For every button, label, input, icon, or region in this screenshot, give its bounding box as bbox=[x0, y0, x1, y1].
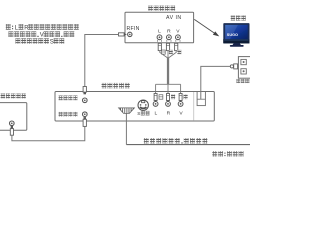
svg-text:SUGO: SUGO bbox=[227, 33, 238, 37]
plug R (STB) bbox=[167, 94, 170, 101]
label technician only bbox=[144, 138, 208, 144]
plug power (2-pin) bbox=[230, 64, 237, 69]
plug RF output bbox=[83, 117, 86, 126]
wire technician connector lead bbox=[125, 114, 127, 145]
label R (STB) bbox=[167, 110, 171, 116]
label power outlet bbox=[236, 79, 253, 83]
label V (TV) bbox=[176, 28, 180, 34]
label yellow (top) bbox=[177, 50, 181, 54]
wire RF cable to loop output bbox=[85, 35, 119, 87]
label TV set bbox=[231, 16, 246, 21]
svg-text:L: L bbox=[155, 110, 158, 116]
label loop output bbox=[59, 96, 78, 101]
label AV IN bbox=[166, 15, 182, 21]
plug V (STB) bbox=[179, 94, 182, 101]
label RFIN bbox=[127, 26, 140, 32]
jack L (TV) bbox=[157, 35, 162, 42]
wire user terminal to RF output bbox=[12, 126, 85, 140]
jack L (STB) bbox=[153, 100, 158, 106]
plug L (from TV) bbox=[158, 43, 161, 50]
label V (STB) bbox=[179, 110, 183, 116]
arrow to TV set bbox=[194, 19, 219, 36]
plug loop output bbox=[83, 87, 86, 95]
TV set icon bbox=[223, 23, 249, 47]
svg-text:V: V bbox=[40, 33, 44, 39]
svg-text:S: S bbox=[50, 40, 54, 46]
label TV back panel bbox=[148, 6, 175, 11]
label white (top) bbox=[162, 50, 166, 54]
svg-text:S: S bbox=[137, 111, 140, 117]
label STB back panel bbox=[102, 83, 130, 89]
box set-top box back panel bbox=[55, 92, 214, 122]
plug user terminal bbox=[10, 129, 13, 136]
power port on STB bbox=[197, 92, 205, 106]
label S terminal bbox=[137, 111, 140, 117]
note line1 bbox=[6, 24, 79, 31]
svg-text:RFIN: RFIN bbox=[127, 26, 140, 32]
jack V (TV) bbox=[176, 35, 181, 42]
wire AV bundle bbox=[156, 51, 181, 94]
box TV back panel bbox=[125, 12, 194, 43]
svg-text:L: L bbox=[158, 28, 161, 34]
note line3 bbox=[15, 38, 64, 45]
plug R (from TV) bbox=[166, 43, 169, 50]
label L (TV) bbox=[158, 28, 161, 34]
jack R (TV) bbox=[167, 35, 172, 42]
jack V (STB) bbox=[178, 100, 183, 106]
label yellow (stb) bbox=[184, 95, 188, 100]
label L (STB) bbox=[155, 110, 158, 116]
label red (top) bbox=[169, 50, 173, 54]
jack RF output bbox=[83, 112, 88, 117]
note line2 bbox=[8, 31, 74, 38]
box user terminal bbox=[0, 103, 27, 131]
label S terminal cjk bbox=[141, 111, 150, 116]
plug RF bbox=[119, 33, 127, 36]
jack RFIN bbox=[128, 32, 132, 36]
svg-text:AV IN: AV IN bbox=[166, 15, 182, 21]
label white (stb) bbox=[159, 95, 163, 99]
jack R (STB) bbox=[166, 100, 171, 106]
label red (stb) bbox=[171, 95, 175, 100]
plug L (STB) bbox=[154, 94, 157, 101]
box power outlet bbox=[238, 57, 251, 79]
wire power cord bbox=[201, 66, 231, 99]
svg-text:R: R bbox=[167, 110, 171, 116]
label user terminal box bbox=[1, 93, 26, 98]
rule annotation line bbox=[126, 144, 250, 146]
label drawn-by bbox=[212, 151, 243, 157]
connector trapezoid (technician port) bbox=[119, 108, 135, 114]
svg-text:R: R bbox=[167, 28, 171, 34]
jack loop output bbox=[83, 98, 88, 103]
connector S-terminal bbox=[138, 100, 148, 110]
label R (TV) bbox=[167, 28, 171, 34]
plug V (from TV) bbox=[175, 43, 178, 50]
label RF output bbox=[59, 112, 78, 117]
jack user terminal bbox=[10, 121, 15, 128]
